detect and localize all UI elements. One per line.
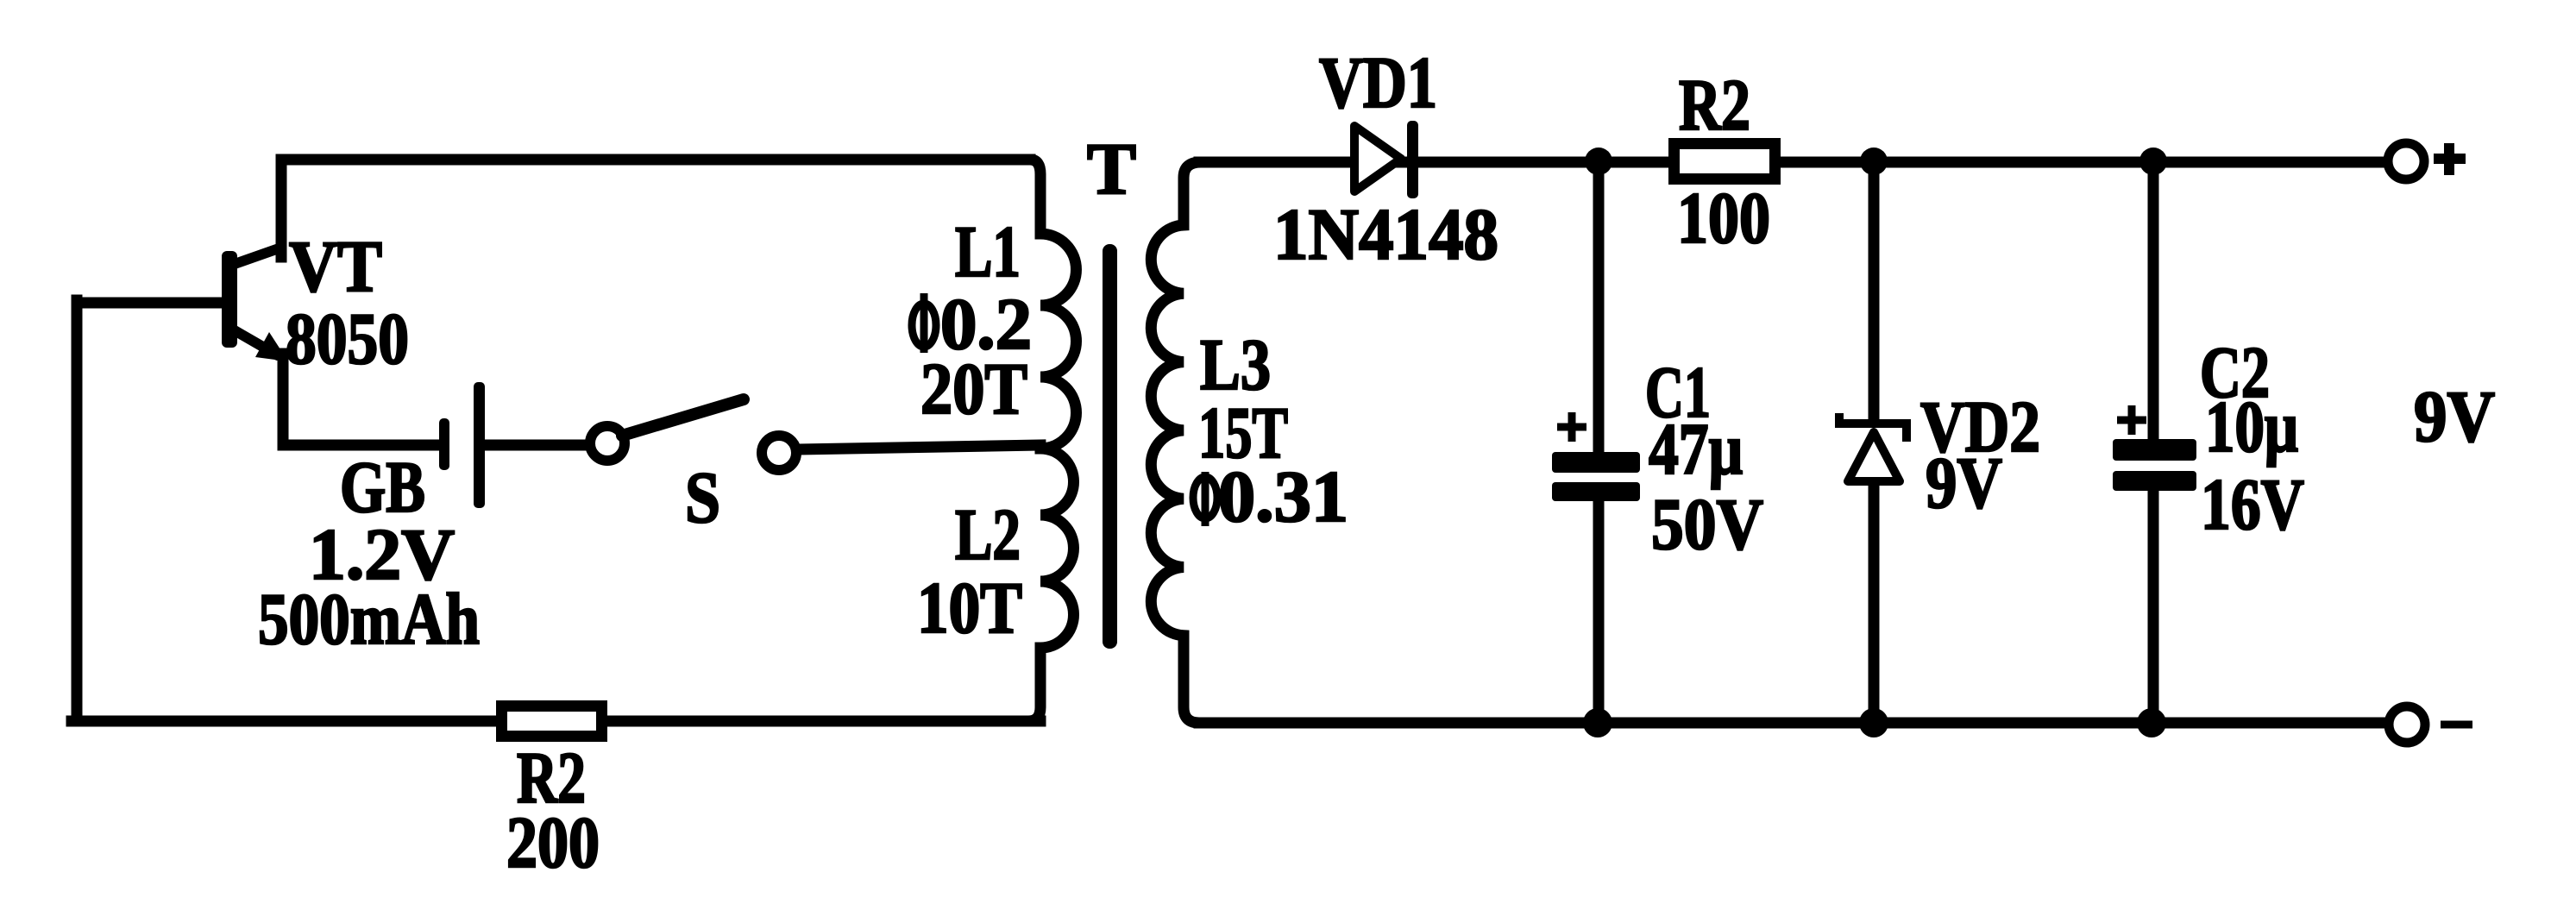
terminal minus circle xyxy=(2389,706,2425,743)
label phi0.31 xyxy=(1193,477,1217,518)
resistor R2 top box xyxy=(1674,144,1775,179)
svg-text:L1: L1 xyxy=(955,211,1021,292)
svg-text:0.31: 0.31 xyxy=(1218,456,1348,537)
terminal plus circle xyxy=(2388,143,2424,179)
svg-text:9V: 9V xyxy=(1926,442,2002,524)
winding L2 xyxy=(1028,449,1074,721)
transistor emitter arrowhead xyxy=(255,332,288,361)
wire top-right rail xyxy=(1199,157,2384,168)
capacitor C1 bottom plate xyxy=(1552,482,1640,501)
wire emitter to battery xyxy=(283,440,437,451)
wire left vertical (feedback rail) xyxy=(72,300,83,721)
junction node top C2 xyxy=(2139,147,2167,175)
wire top-left (collector riser and top rail to transformer) xyxy=(281,160,1030,257)
wire battery to switch xyxy=(481,440,588,451)
wire bottom-left rail xyxy=(72,716,1040,727)
battery long plate xyxy=(474,382,485,508)
svg-text:10μ: 10μ xyxy=(2205,386,2298,468)
transistor collector diagonal xyxy=(235,248,281,264)
diode VD1 triangle xyxy=(1354,126,1401,191)
wire switch to transformer centre tap xyxy=(799,445,1040,449)
svg-text:VT: VT xyxy=(289,226,382,307)
junction node bottom C1 xyxy=(1583,708,1612,737)
wire C1 branch xyxy=(1593,162,1605,723)
label phi0.2 xyxy=(912,304,936,347)
resistor R2 bottom box xyxy=(502,706,602,737)
svg-text:VD1: VD1 xyxy=(1319,42,1437,123)
svg-text:L2: L2 xyxy=(955,494,1021,575)
svg-text:1N4148: 1N4148 xyxy=(1273,194,1498,275)
terminal plus sign xyxy=(2434,143,2466,175)
diode VD1 cathode bar xyxy=(1407,121,1418,198)
wire bottom-right rail xyxy=(1199,718,2384,729)
battery short plate xyxy=(439,418,449,470)
svg-text:200: 200 xyxy=(506,802,600,883)
svg-text:47μ: 47μ xyxy=(1649,409,1743,490)
junction node bottom C2 xyxy=(2137,708,2166,737)
wire VD2 branch xyxy=(1869,162,1880,723)
svg-text:500mAh: 500mAh xyxy=(258,579,480,660)
transistor VT base bar xyxy=(222,251,237,348)
switch lever xyxy=(622,399,744,436)
capacitor C1 top plate xyxy=(1552,452,1640,473)
svg-text:8050: 8050 xyxy=(286,298,409,380)
junction node top C1 xyxy=(1585,147,1612,175)
junction node top VD2 xyxy=(1860,147,1888,175)
wire C2 branch xyxy=(2148,162,2159,723)
capacitor C1 plus sign xyxy=(1557,412,1586,442)
switch right contact xyxy=(762,436,796,470)
svg-text:S: S xyxy=(685,457,720,538)
terminal minus sign xyxy=(2441,721,2472,729)
junction node bottom VD2 xyxy=(1859,708,1888,737)
svg-text:50V: 50V xyxy=(1651,484,1763,565)
capacitor C2 top plate xyxy=(2113,439,2196,461)
switch left contact xyxy=(590,426,625,461)
capacitor C2 plus sign xyxy=(2117,405,2146,435)
zener VD2 triangle xyxy=(1848,432,1900,481)
transformer core xyxy=(1103,244,1117,649)
capacitor C2 bottom plate xyxy=(2113,471,2196,491)
wire base xyxy=(77,298,223,309)
svg-text:T: T xyxy=(1087,129,1136,210)
svg-text:9V: 9V xyxy=(2414,376,2495,457)
svg-text:10T: 10T xyxy=(917,568,1022,649)
winding L1 xyxy=(1030,160,1077,449)
svg-text:16V: 16V xyxy=(2201,464,2304,545)
winding L3 xyxy=(1151,162,1201,723)
svg-text:100: 100 xyxy=(1677,178,1770,259)
zener VD2 cathode bar xyxy=(1839,413,1907,442)
transistor emitter diagonal xyxy=(233,329,278,355)
svg-text:20T: 20T xyxy=(920,348,1027,430)
svg-text:R2: R2 xyxy=(1679,65,1750,146)
wire emitter vertical xyxy=(278,354,289,445)
